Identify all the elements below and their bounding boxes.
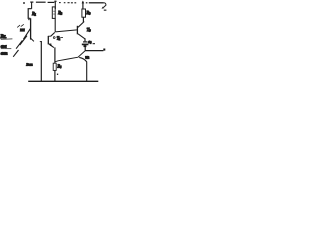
input label Vx with arrow <box>1 35 13 40</box>
svg-text:Т3: Т3 <box>87 27 91 33</box>
output terminal block <box>103 49 105 51</box>
wire T3 emitter lead down <box>84 38 86 41</box>
wire R2 bottom lead <box>54 18 56 32</box>
transistor T3 emitter <box>78 34 85 39</box>
resistor R4 (box on emitter wire) <box>53 63 56 70</box>
top output line (solid) with hook <box>86 3 106 9</box>
wire R1 bottom lead <box>28 18 31 39</box>
resistor R1 (box, right side faded) <box>28 9 31 19</box>
input value fraction text <box>1 44 12 56</box>
transistor T1 emitter lead <box>13 50 18 57</box>
svg-text:ава: ава <box>1 44 7 49</box>
transistor T1 emitter arrowheads <box>17 24 24 27</box>
supply arrow above R3 <box>82 1 85 9</box>
speck left of supply rail <box>23 2 25 4</box>
output wire to terminal <box>85 50 103 52</box>
capacitor C4 plate bottom <box>82 43 89 45</box>
transistor T1 base stroke <box>20 36 27 45</box>
speck near R4 bottom <box>57 74 58 75</box>
node junction below R1 <box>31 38 34 41</box>
svg-text:Вых: Вых <box>26 62 33 66</box>
wire C4 to output junction <box>84 45 86 50</box>
transistor T2 emitter with arrow <box>49 44 54 48</box>
wire branch from bus down to ground rail <box>79 57 87 81</box>
dark mass below C4 plate <box>84 45 87 47</box>
transistor T1 emitter stroke <box>16 40 22 48</box>
svg-text:ип: ип <box>85 55 89 59</box>
transistor T3 base bar <box>76 26 78 35</box>
svg-text:R1: R1 <box>31 11 36 17</box>
label T2 <box>57 37 63 42</box>
wire vertical V1 to ground rail <box>40 41 42 81</box>
transistor T3 collector <box>78 22 84 28</box>
junction dot at T2 collector <box>53 37 55 39</box>
svg-text:ти: ти <box>20 28 25 32</box>
speck right of C4 label <box>93 43 95 44</box>
wire base link to T3 <box>55 30 77 32</box>
svg-text:с4: с4 <box>88 40 92 45</box>
transistor T2 collector <box>51 32 55 36</box>
svg-text:R3: R3 <box>86 10 91 16</box>
wire T2 emitter to ground rail <box>54 47 56 81</box>
resistor R2 (box) <box>52 7 55 19</box>
resistor R3 (box) <box>82 9 86 17</box>
transistor T1 collector stroke <box>23 29 30 40</box>
svg-text:R4: R4 <box>57 64 62 69</box>
emitter bus wire rising to output node <box>55 51 85 62</box>
svg-text:Т1: Т1 <box>57 37 61 42</box>
svg-text:R2: R2 <box>57 10 62 16</box>
transistor T2 base bar <box>48 36 51 45</box>
wire R1 top lead <box>31 2 33 9</box>
specks under hook <box>104 10 107 11</box>
svg-text:авт: авт <box>1 50 8 55</box>
ground rail (bottom) <box>28 80 98 82</box>
wire R2 top lead crossing rail <box>54 1 57 9</box>
specks inside R2 <box>53 10 56 13</box>
capacitor C4 plate top <box>83 41 87 43</box>
supply rail (dashed, top) <box>30 1 76 4</box>
wire R3 bottom lead <box>82 17 84 22</box>
